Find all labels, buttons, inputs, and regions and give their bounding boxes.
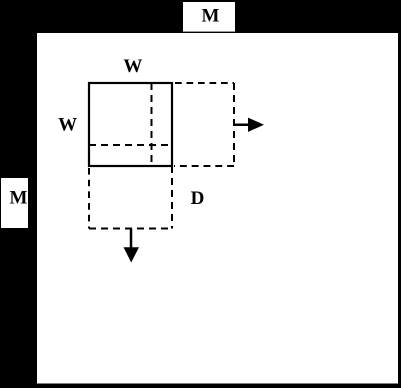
left moment label box M [1, 178, 28, 228]
svg-text:M: M [10, 188, 28, 209]
down displacement arrow shaft [130, 229, 133, 250]
right displacement arrow head [248, 118, 264, 132]
down-shifted dashed square: right edge [171, 166, 173, 229]
down-shifted dashed square: left edge [88, 168, 90, 229]
svg-text:W: W [123, 56, 142, 77]
dashed top edge of down-shifted square (inside solid square) [89, 144, 172, 146]
down-shifted dashed square: bottom edge [89, 228, 172, 230]
solid square W x W [89, 83, 172, 166]
right-shifted dashed square: right edge [233, 83, 235, 166]
svg-text:W: W [58, 114, 77, 135]
right-shifted dashed square: bottom edge [174, 165, 234, 167]
right-shifted dashed square: top edge [175, 82, 234, 84]
down displacement arrow head [124, 247, 140, 262]
dashed left edge of right-shifted square (inside solid square) [151, 83, 153, 166]
right displacement arrow shaft [234, 124, 251, 127]
svg-text:M: M [202, 6, 220, 27]
svg-text:D: D [191, 188, 205, 209]
top moment label box M [183, 2, 235, 32]
